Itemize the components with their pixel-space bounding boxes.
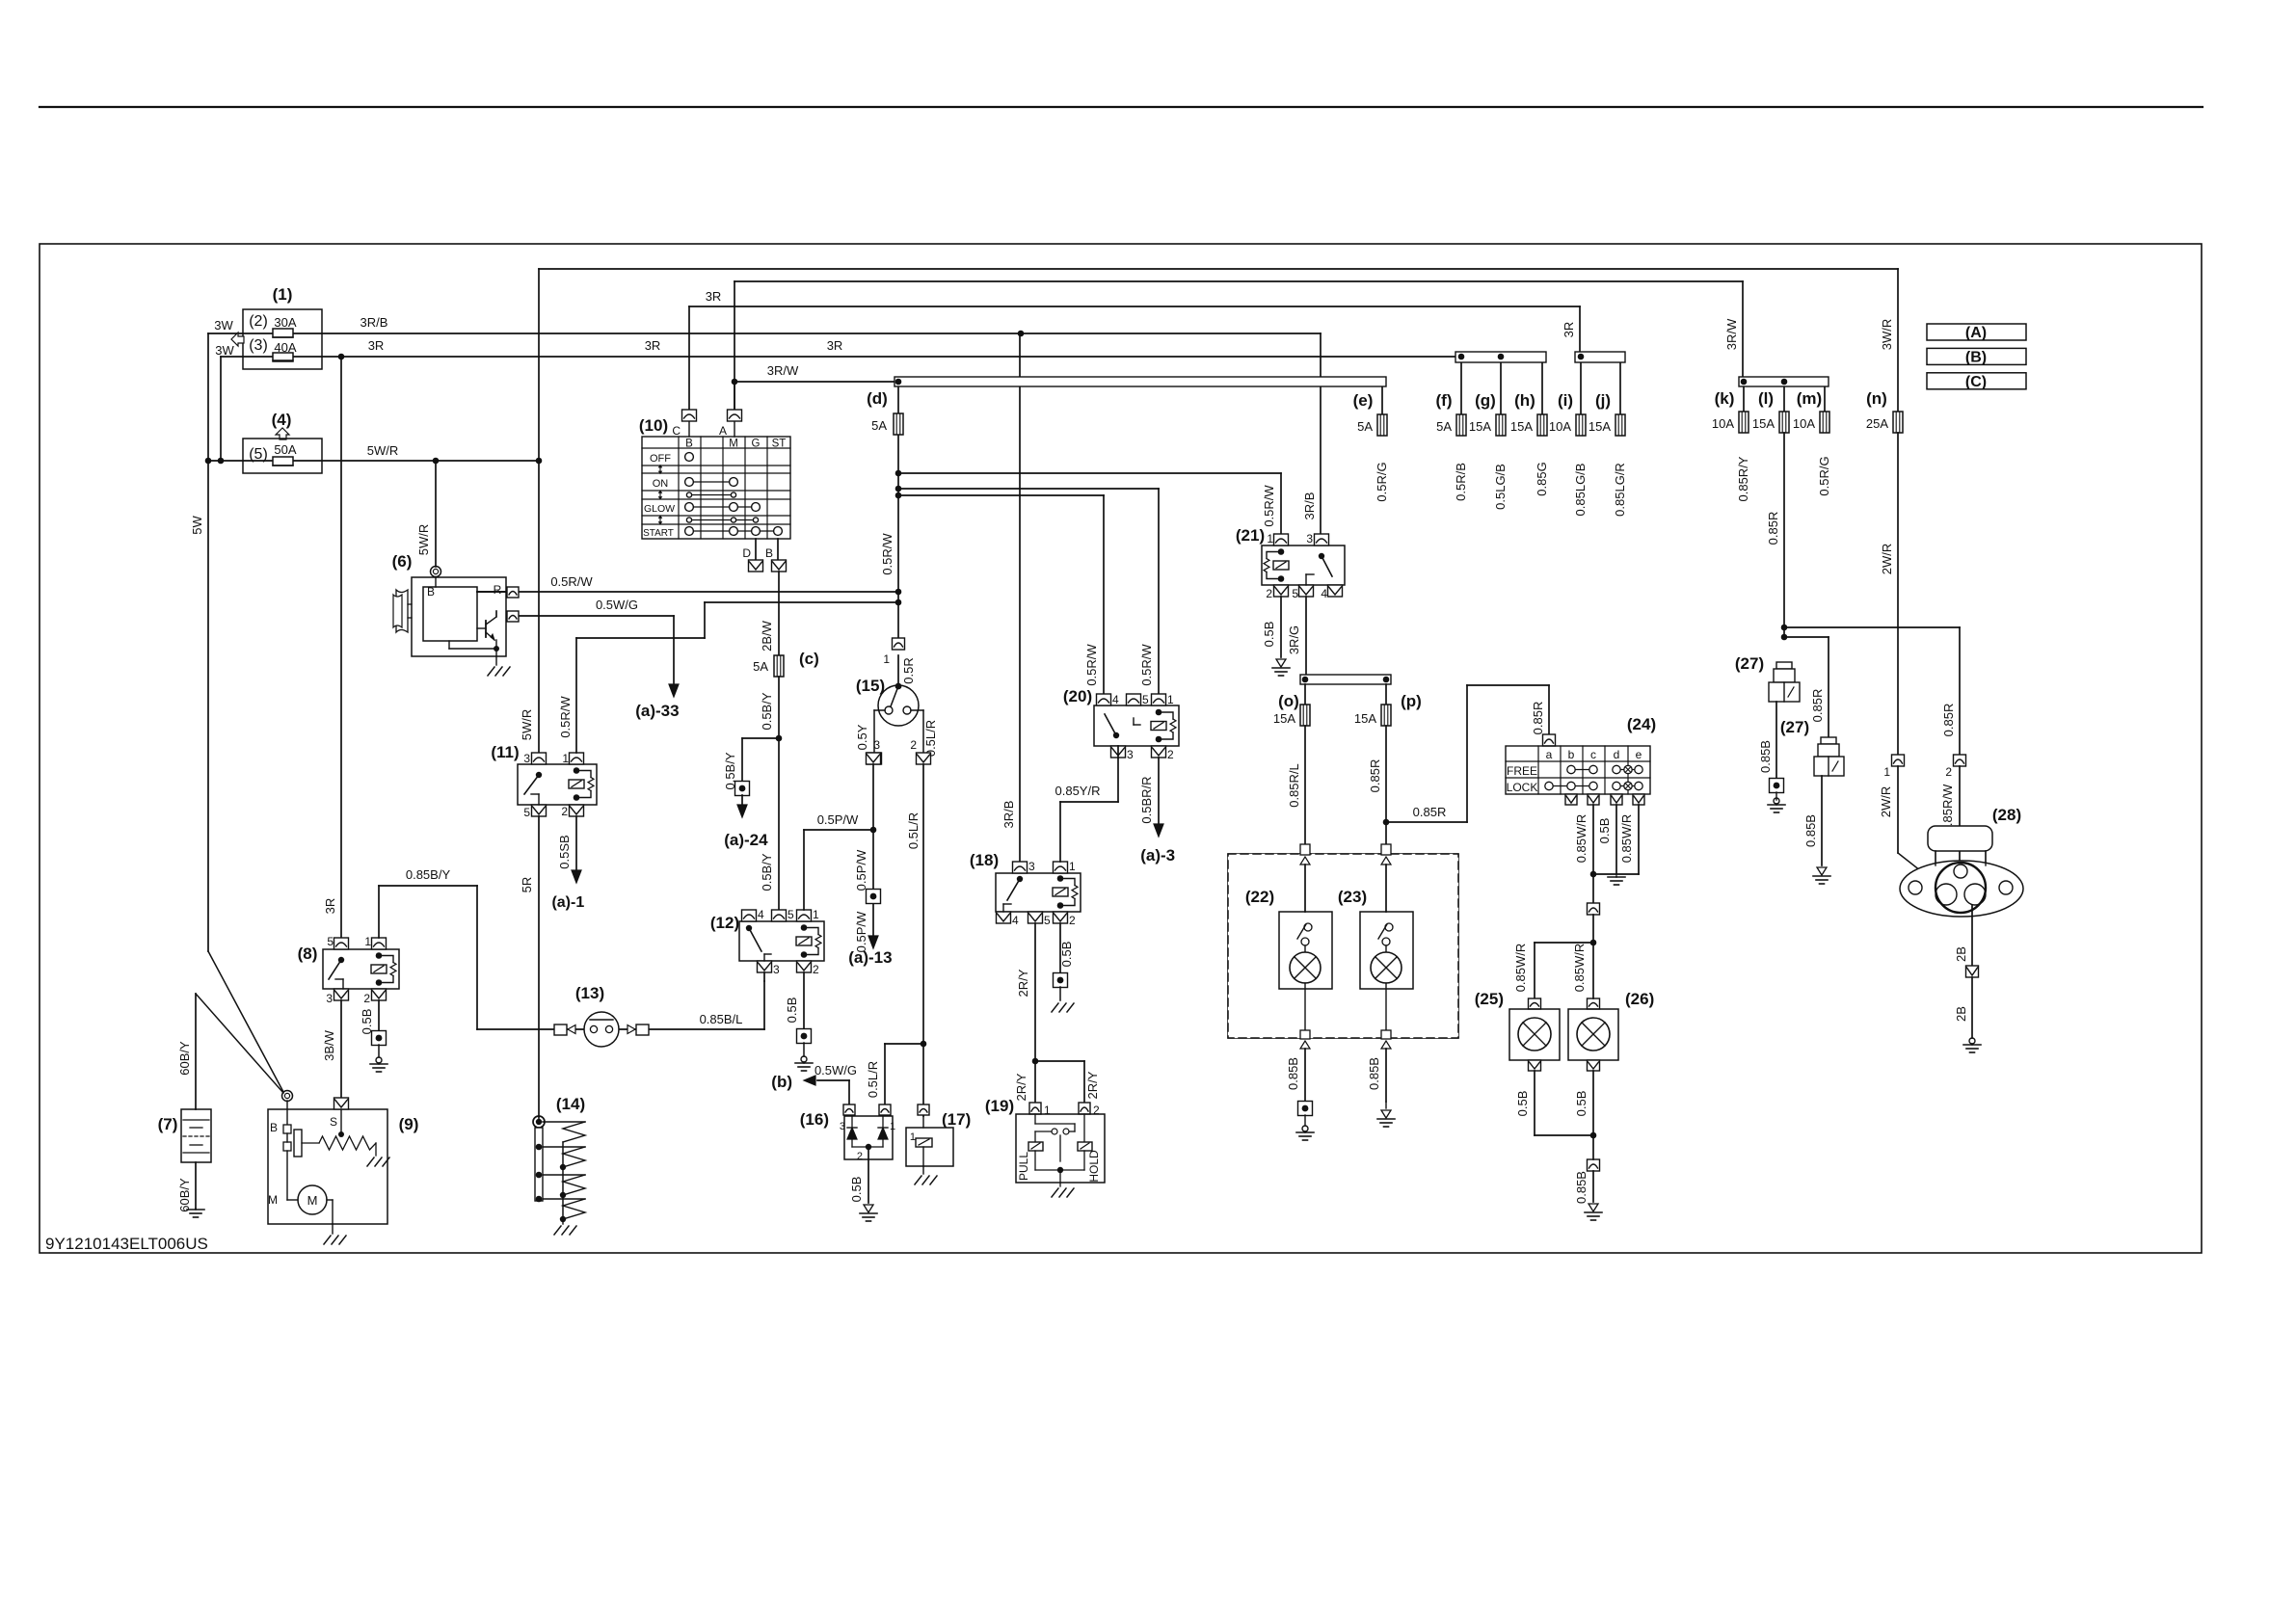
svg-text:0.5B: 0.5B xyxy=(1574,1091,1589,1117)
svg-text:3: 3 xyxy=(326,992,333,1005)
svg-text:(f): (f) xyxy=(1436,391,1453,410)
svg-text:2R/Y: 2R/Y xyxy=(1016,969,1030,997)
svg-text:(d): (d) xyxy=(867,389,888,408)
svg-text:ST: ST xyxy=(772,439,787,450)
svg-text:0.5B: 0.5B xyxy=(1515,1091,1530,1117)
svg-text:(21): (21) xyxy=(1236,526,1265,545)
svg-text:0.5R/W: 0.5R/W xyxy=(1139,644,1154,686)
svg-text:2B/W: 2B/W xyxy=(760,620,774,652)
svg-text:(8): (8) xyxy=(298,945,318,963)
svg-text:0.5B/Y: 0.5B/Y xyxy=(723,752,737,789)
svg-text:0.85R/Y: 0.85R/Y xyxy=(1736,456,1750,501)
svg-text:0.85B: 0.85B xyxy=(1286,1057,1300,1090)
svg-text:(a): (a) xyxy=(1140,846,1161,865)
svg-text:5W/R: 5W/R xyxy=(416,524,431,556)
svg-text:3: 3 xyxy=(773,963,780,976)
svg-text:(g): (g) xyxy=(1475,391,1496,410)
svg-text:0.85R/L: 0.85R/L xyxy=(1287,763,1301,808)
svg-text:0.85R: 0.85R xyxy=(1368,759,1382,793)
svg-text:9Y1210143ELT006US: 9Y1210143ELT006US xyxy=(45,1235,208,1253)
svg-text:0.5L/R: 0.5L/R xyxy=(906,812,921,849)
svg-text:1: 1 xyxy=(1044,1104,1051,1117)
svg-text:2: 2 xyxy=(363,992,370,1005)
svg-text:2: 2 xyxy=(1069,914,1076,927)
svg-text:4: 4 xyxy=(1321,587,1327,600)
svg-text:15A: 15A xyxy=(1510,419,1533,434)
svg-text:2: 2 xyxy=(1093,1104,1100,1117)
svg-text:0.5W/G: 0.5W/G xyxy=(596,598,638,612)
svg-text:3R: 3R xyxy=(1562,322,1576,338)
svg-text:2B: 2B xyxy=(1954,946,1968,962)
svg-text:(C): (C) xyxy=(1965,374,1987,390)
svg-text:5A: 5A xyxy=(871,418,887,433)
svg-text:0.85B: 0.85B xyxy=(1367,1057,1381,1090)
svg-text:(a): (a) xyxy=(551,894,571,911)
svg-text:5: 5 xyxy=(788,908,794,921)
svg-text:60B/Y: 60B/Y xyxy=(177,1041,192,1076)
svg-text:0.5B: 0.5B xyxy=(849,1177,864,1203)
svg-text:0.5Y: 0.5Y xyxy=(855,724,869,750)
svg-text:3B/W: 3B/W xyxy=(322,1029,336,1061)
svg-text:0.5SB: 0.5SB xyxy=(557,835,572,868)
svg-text:(3): (3) xyxy=(249,337,268,354)
svg-text:GLOW: GLOW xyxy=(644,503,675,515)
svg-text:3R/B: 3R/B xyxy=(360,315,388,330)
svg-text:-24: -24 xyxy=(744,831,768,849)
svg-text:5: 5 xyxy=(523,806,530,819)
svg-text:FREE: FREE xyxy=(1507,764,1537,778)
svg-text:(o): (o) xyxy=(1278,692,1299,710)
svg-text:1: 1 xyxy=(1883,765,1890,779)
svg-text:(n): (n) xyxy=(1866,389,1887,408)
svg-text:(13): (13) xyxy=(575,984,604,1002)
svg-text:0.5B/Y: 0.5B/Y xyxy=(760,692,774,730)
svg-text:15A: 15A xyxy=(1469,419,1491,434)
svg-text:3R: 3R xyxy=(323,898,337,915)
svg-text:0.5R/W: 0.5R/W xyxy=(558,696,573,738)
svg-text:0.85R: 0.85R xyxy=(1413,805,1447,819)
svg-text:(15): (15) xyxy=(856,677,885,695)
svg-text:3: 3 xyxy=(840,1121,845,1132)
svg-text:0.85W/R: 0.85W/R xyxy=(1572,944,1587,993)
svg-text:(b): (b) xyxy=(771,1073,792,1091)
svg-text:25A: 25A xyxy=(1866,416,1888,431)
svg-text:5A: 5A xyxy=(1436,419,1452,434)
svg-text:5W/R: 5W/R xyxy=(520,709,534,741)
svg-text:3W: 3W xyxy=(214,318,233,333)
svg-text:3W/R: 3W/R xyxy=(1880,319,1894,351)
svg-text:1: 1 xyxy=(883,652,890,666)
svg-text:A: A xyxy=(719,424,727,438)
svg-text:0.5B: 0.5B xyxy=(1262,622,1276,648)
svg-text:0.5W/G: 0.5W/G xyxy=(814,1063,857,1078)
svg-text:0.5R/W: 0.5R/W xyxy=(880,533,894,575)
svg-text:2: 2 xyxy=(1266,587,1272,600)
svg-text:0.5L/R: 0.5L/R xyxy=(866,1061,880,1098)
svg-text:(7): (7) xyxy=(158,1115,178,1133)
svg-text:3R: 3R xyxy=(827,338,843,353)
svg-text:ON: ON xyxy=(653,478,669,490)
svg-text:2: 2 xyxy=(813,963,819,976)
svg-text:0.5B: 0.5B xyxy=(785,998,799,1024)
svg-text:1: 1 xyxy=(813,908,819,921)
svg-text:1: 1 xyxy=(1167,693,1174,706)
svg-text:2: 2 xyxy=(1945,765,1952,779)
svg-text:c: c xyxy=(1590,748,1596,761)
svg-text:2W/R: 2W/R xyxy=(1879,786,1893,818)
svg-text:3R/B: 3R/B xyxy=(1001,801,1016,829)
svg-text:(28): (28) xyxy=(1992,806,2021,824)
svg-text:0.5B/Y: 0.5B/Y xyxy=(760,853,774,891)
svg-text:OFF: OFF xyxy=(650,453,671,465)
svg-text:(c): (c) xyxy=(799,650,819,668)
svg-text:4: 4 xyxy=(1112,693,1119,706)
svg-text:(j): (j) xyxy=(1595,391,1611,410)
svg-text:60B/Y: 60B/Y xyxy=(177,1178,192,1212)
svg-text:b: b xyxy=(1568,748,1575,761)
svg-text:(e): (e) xyxy=(1353,391,1374,410)
svg-text:1: 1 xyxy=(910,1131,916,1143)
svg-text:0.5LG/B: 0.5LG/B xyxy=(1493,464,1508,510)
svg-text:(11): (11) xyxy=(491,743,519,761)
svg-text:1: 1 xyxy=(1267,532,1273,545)
svg-text:0.85B: 0.85B xyxy=(1758,740,1773,773)
svg-text:30A: 30A xyxy=(274,315,296,330)
svg-text:0.85B/L: 0.85B/L xyxy=(700,1012,743,1026)
svg-text:0.5P/W: 0.5P/W xyxy=(817,812,859,827)
svg-text:15A: 15A xyxy=(1752,416,1775,431)
svg-text:0.85Y/R: 0.85Y/R xyxy=(1055,784,1101,798)
svg-text:1: 1 xyxy=(1069,860,1076,873)
svg-text:C: C xyxy=(672,424,681,438)
svg-text:(23): (23) xyxy=(1338,888,1367,906)
svg-text:2: 2 xyxy=(561,805,568,818)
svg-text:B: B xyxy=(270,1121,278,1134)
svg-text:0.85W/R: 0.85W/R xyxy=(1619,814,1634,864)
svg-text:3R: 3R xyxy=(706,289,722,304)
svg-text:B: B xyxy=(685,439,693,450)
svg-text:(27): (27) xyxy=(1780,718,1809,736)
svg-text:0.5R/W: 0.5R/W xyxy=(1084,644,1099,686)
svg-text:(25): (25) xyxy=(1475,990,1504,1008)
svg-text:3: 3 xyxy=(873,738,880,752)
svg-text:50A: 50A xyxy=(274,442,296,457)
svg-text:5: 5 xyxy=(1292,587,1298,600)
svg-text:0.5L/R: 0.5L/R xyxy=(923,720,938,757)
svg-text:3R: 3R xyxy=(645,338,661,353)
svg-text:0.85R: 0.85R xyxy=(1531,702,1545,735)
svg-text:G: G xyxy=(752,439,761,450)
svg-text:M: M xyxy=(729,439,738,450)
svg-text:(14): (14) xyxy=(556,1095,585,1113)
svg-text:(a): (a) xyxy=(635,702,655,720)
svg-text:0.5R: 0.5R xyxy=(901,657,916,683)
svg-text:0.5R/W: 0.5R/W xyxy=(1262,485,1276,527)
svg-text:R: R xyxy=(494,583,502,597)
svg-text:(2): (2) xyxy=(249,313,268,330)
svg-text:(l): (l) xyxy=(1758,389,1774,408)
svg-text:(10): (10) xyxy=(639,416,668,435)
svg-text:5: 5 xyxy=(327,935,334,948)
svg-text:(26): (26) xyxy=(1625,990,1654,1008)
svg-text:0.85LG/B: 0.85LG/B xyxy=(1573,464,1588,517)
svg-text:15A: 15A xyxy=(1354,711,1376,726)
svg-text:START: START xyxy=(643,528,674,539)
svg-text:0.5R/G: 0.5R/G xyxy=(1375,462,1389,501)
svg-text:15A: 15A xyxy=(1273,711,1295,726)
svg-text:5W/R: 5W/R xyxy=(367,443,399,458)
svg-text:0.5P/W: 0.5P/W xyxy=(854,849,868,891)
svg-text:4: 4 xyxy=(758,908,764,921)
svg-text:5A: 5A xyxy=(1357,419,1373,434)
svg-text:3: 3 xyxy=(1306,532,1313,545)
svg-text:10A: 10A xyxy=(1793,416,1815,431)
svg-text:15A: 15A xyxy=(1589,419,1611,434)
svg-text:(6): (6) xyxy=(392,552,413,571)
svg-text:(9): (9) xyxy=(399,1115,419,1133)
svg-text:0.85B: 0.85B xyxy=(1574,1171,1589,1204)
svg-text:(4): (4) xyxy=(272,411,292,429)
svg-text:(B): (B) xyxy=(1965,349,1987,365)
svg-text:(a): (a) xyxy=(848,948,868,967)
svg-text:3: 3 xyxy=(523,752,530,765)
svg-text:B: B xyxy=(427,585,435,599)
svg-text:3W: 3W xyxy=(215,343,234,358)
svg-text:4: 4 xyxy=(1012,914,1019,927)
svg-text:(i): (i) xyxy=(1558,391,1573,410)
svg-text:HOLD: HOLD xyxy=(1087,1150,1101,1183)
svg-text:2R/Y: 2R/Y xyxy=(1085,1071,1100,1099)
svg-text:0.85W/R: 0.85W/R xyxy=(1513,944,1528,993)
svg-text:(16): (16) xyxy=(800,1110,829,1129)
svg-text:0.85B: 0.85B xyxy=(1803,814,1818,847)
svg-text:(22): (22) xyxy=(1245,888,1274,906)
svg-text:S: S xyxy=(330,1115,337,1129)
svg-text:B: B xyxy=(765,546,773,560)
svg-text:10A: 10A xyxy=(1549,419,1571,434)
svg-text:0.85R: 0.85R xyxy=(1766,512,1780,545)
svg-text:0.85LG/R: 0.85LG/R xyxy=(1613,463,1627,517)
svg-text:(27): (27) xyxy=(1735,654,1764,673)
svg-text:2: 2 xyxy=(857,1151,863,1162)
svg-text:a: a xyxy=(1546,748,1553,761)
svg-text:3R/G: 3R/G xyxy=(1287,625,1301,654)
svg-text:e: e xyxy=(1636,748,1642,761)
svg-text:(m): (m) xyxy=(1797,389,1822,408)
svg-text:D: D xyxy=(742,546,751,560)
svg-text:0.5B: 0.5B xyxy=(1597,818,1612,844)
svg-text:5A: 5A xyxy=(753,659,768,674)
svg-text:(5): (5) xyxy=(249,446,268,463)
svg-text:3: 3 xyxy=(1127,748,1134,761)
svg-text:2B: 2B xyxy=(1954,1006,1968,1022)
svg-text:(1): (1) xyxy=(273,285,293,304)
svg-text:0.85R: 0.85R xyxy=(1941,704,1956,737)
svg-text:(24): (24) xyxy=(1627,715,1656,733)
svg-text:(12): (12) xyxy=(710,914,739,932)
svg-text:PULL: PULL xyxy=(1017,1152,1030,1181)
svg-text:M: M xyxy=(268,1193,278,1207)
svg-text:(h): (h) xyxy=(1514,391,1535,410)
svg-text:(a): (a) xyxy=(724,831,744,849)
svg-text:1: 1 xyxy=(562,752,569,765)
svg-text:0.5R/W: 0.5R/W xyxy=(550,574,593,589)
svg-text:0.5R/B: 0.5R/B xyxy=(1454,463,1468,501)
svg-text:2: 2 xyxy=(1167,748,1174,761)
svg-text:0.5B: 0.5B xyxy=(1059,942,1074,968)
svg-text:3R/W: 3R/W xyxy=(767,363,799,378)
svg-text:3R/B: 3R/B xyxy=(1302,492,1317,520)
svg-text:d: d xyxy=(1614,748,1620,761)
svg-text:-13: -13 xyxy=(868,948,893,967)
svg-text:10A: 10A xyxy=(1712,416,1734,431)
svg-text:3R/W: 3R/W xyxy=(1724,318,1739,350)
svg-text:LOCK: LOCK xyxy=(1507,781,1538,794)
svg-text:5: 5 xyxy=(1142,693,1149,706)
svg-text:-33: -33 xyxy=(655,702,680,720)
svg-text:(18): (18) xyxy=(970,851,999,869)
svg-text:5R: 5R xyxy=(520,877,534,893)
svg-text:0.85G: 0.85G xyxy=(1535,462,1549,495)
svg-text:2W/R: 2W/R xyxy=(1880,544,1894,575)
svg-text:(A): (A) xyxy=(1965,325,1987,341)
svg-text:0.85B/Y: 0.85B/Y xyxy=(406,867,451,882)
svg-text:5W: 5W xyxy=(190,516,204,535)
svg-text:2: 2 xyxy=(910,738,917,752)
svg-text:-3: -3 xyxy=(1161,846,1175,865)
svg-text:0.5R/G: 0.5R/G xyxy=(1817,456,1831,495)
svg-text:1: 1 xyxy=(364,935,371,948)
svg-text:-1: -1 xyxy=(571,894,584,911)
svg-text:0.5P/W: 0.5P/W xyxy=(854,911,868,952)
svg-text:3: 3 xyxy=(1028,860,1035,873)
svg-text:(17): (17) xyxy=(942,1110,971,1129)
svg-text:5: 5 xyxy=(1044,914,1051,927)
svg-text:1: 1 xyxy=(890,1121,895,1132)
svg-text:(k): (k) xyxy=(1715,389,1735,408)
svg-text:(20): (20) xyxy=(1063,687,1092,705)
svg-text:0.85R: 0.85R xyxy=(1810,689,1825,723)
svg-text:3R: 3R xyxy=(368,338,385,353)
svg-text:2R/Y: 2R/Y xyxy=(1014,1073,1028,1101)
svg-text:(p): (p) xyxy=(1401,692,1422,710)
svg-text:M: M xyxy=(307,1193,318,1208)
svg-text:0.5BR/R: 0.5BR/R xyxy=(1139,776,1154,823)
svg-text:0.85W/R: 0.85W/R xyxy=(1574,814,1589,864)
svg-text:(19): (19) xyxy=(985,1097,1014,1115)
